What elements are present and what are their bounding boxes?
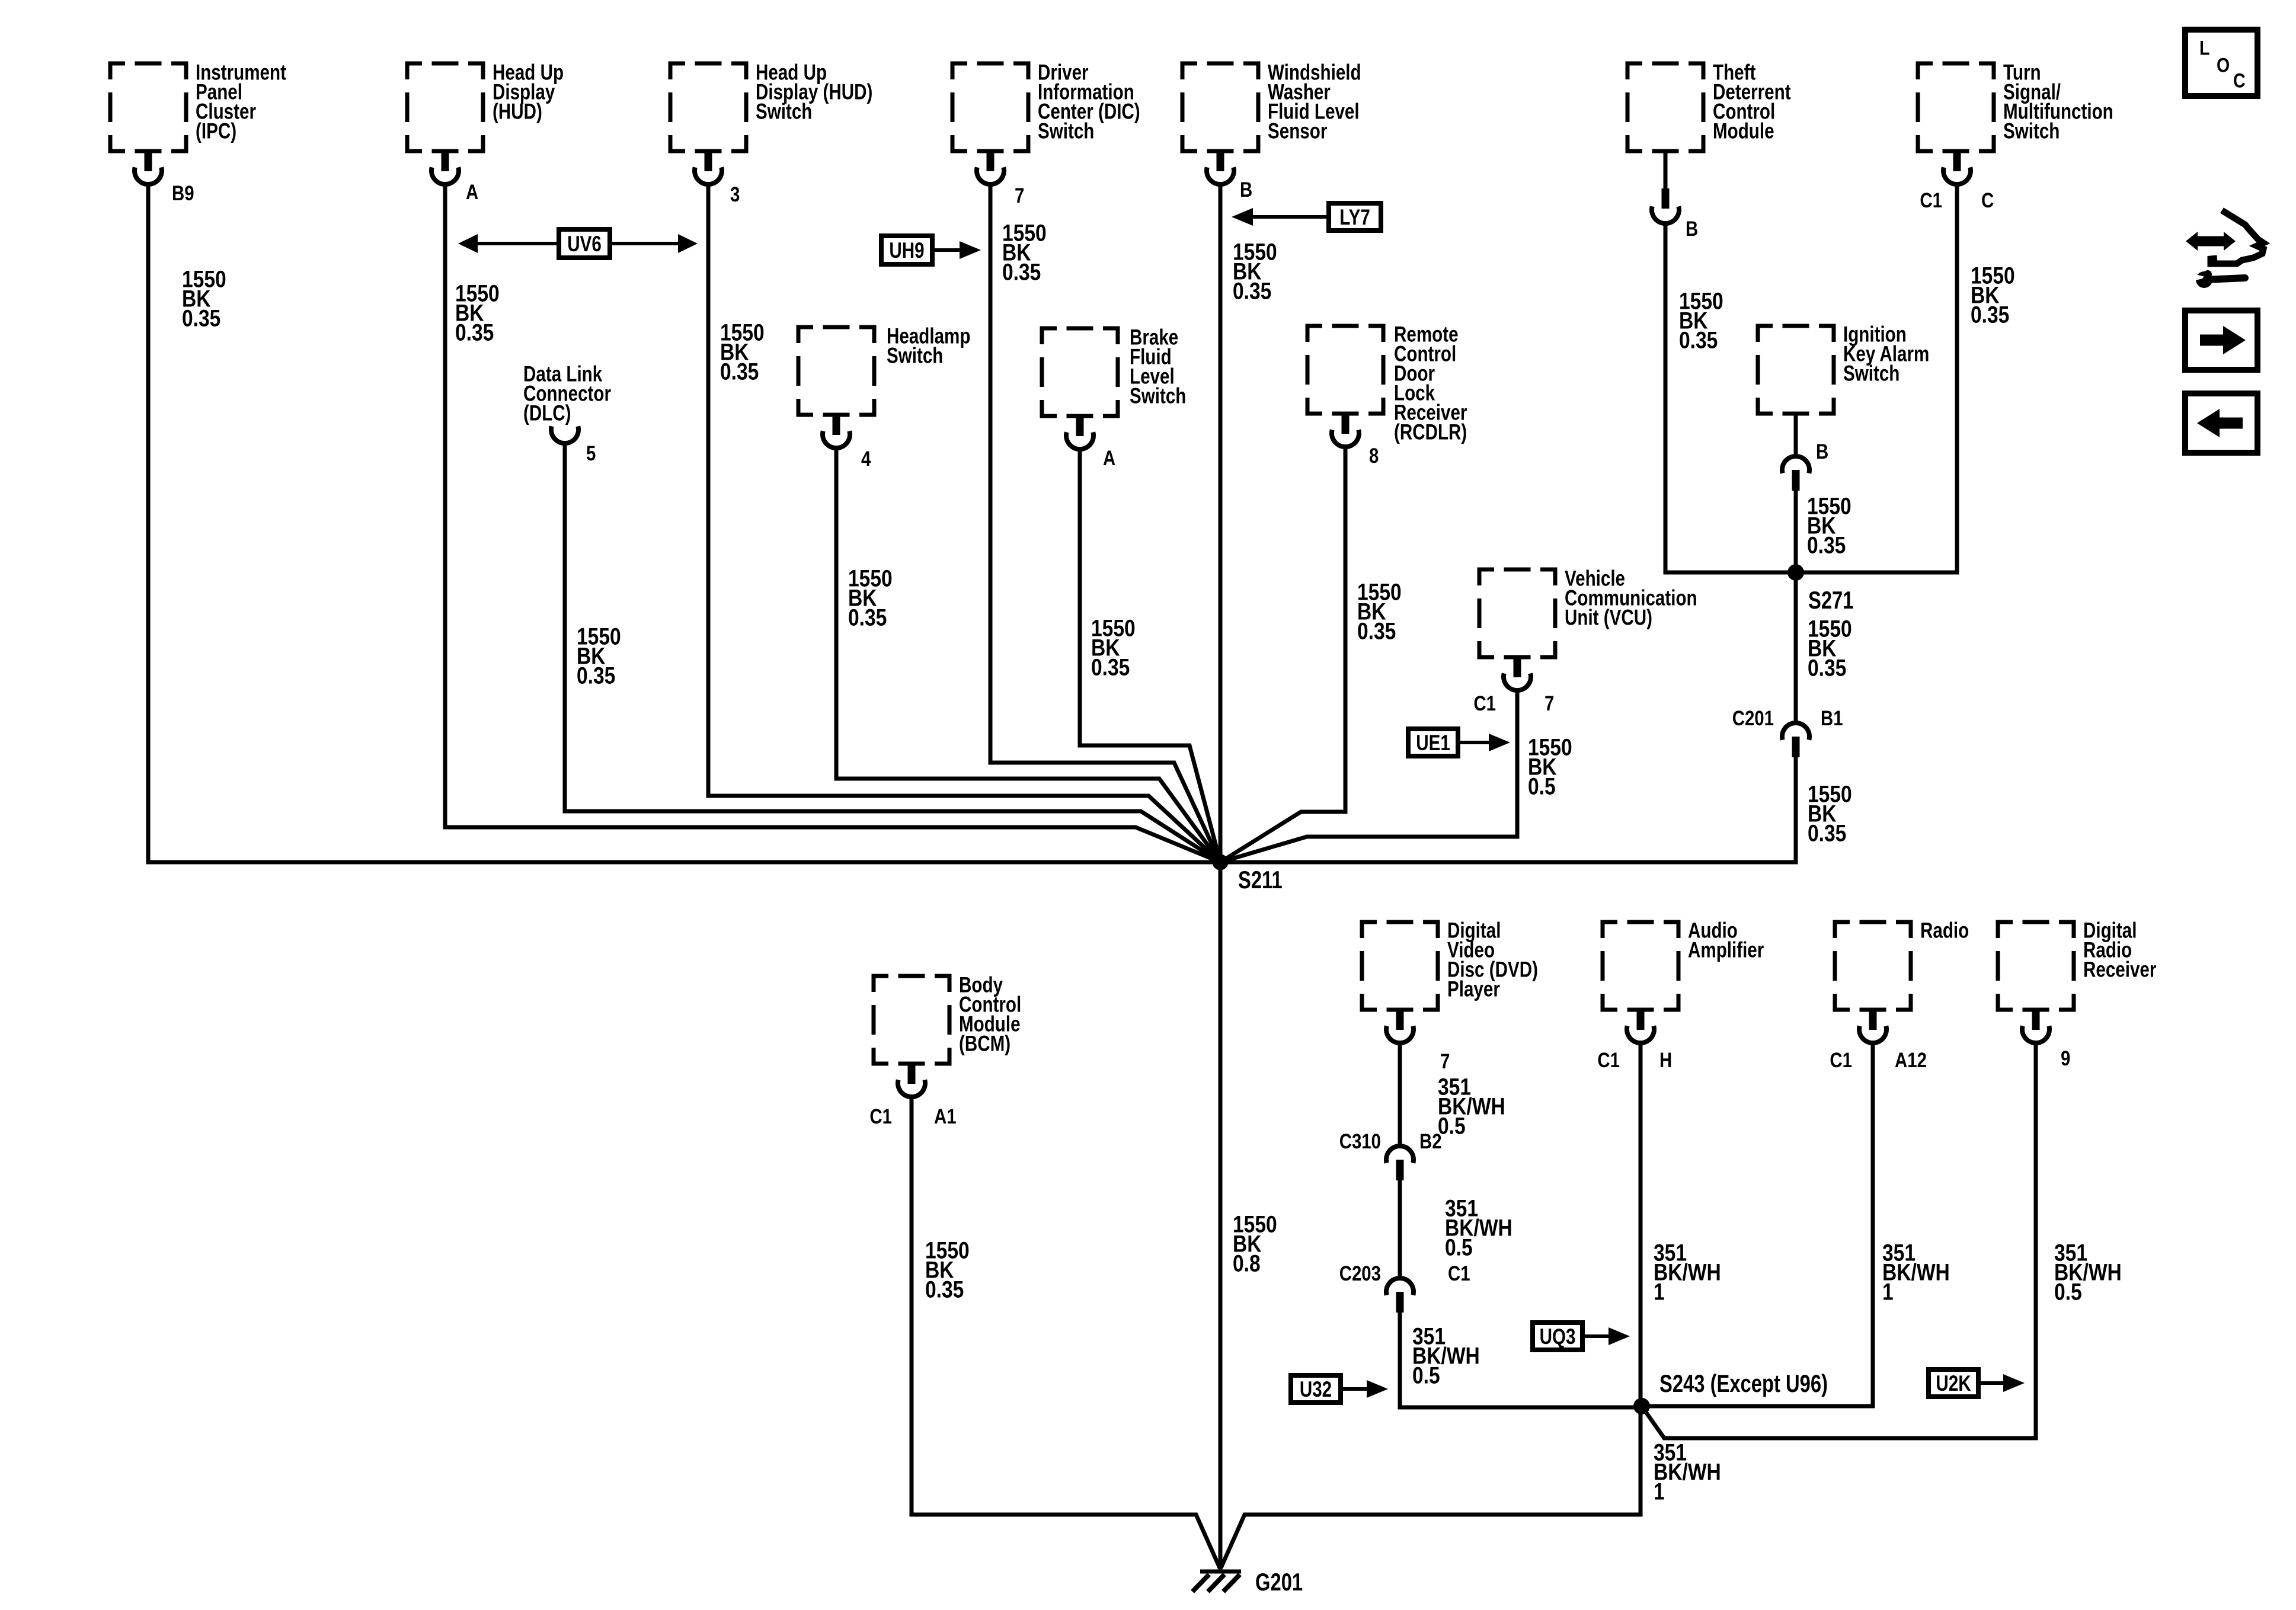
option code UV6 double-headed arrow between HUD and HUD Switch wires <box>458 229 698 258</box>
wire label 1550 BK 0.5 (VCU) <box>1528 734 1572 799</box>
wire: DIC Switch 7 to S211 (1550 BK 0.35) <box>990 184 1220 862</box>
svg-text:(HUD): (HUD) <box>493 100 542 124</box>
wire: Theft Deterrent B to S271 (1550 BK 0.35) <box>1665 221 1796 572</box>
svg-text:0.35: 0.35 <box>925 1276 964 1302</box>
svg-text:0.8: 0.8 <box>1233 1250 1261 1276</box>
svg-text:C1: C1 <box>1448 1262 1470 1285</box>
legend: back arrow box <box>2185 393 2257 453</box>
component box: Radio <box>1835 918 1969 1010</box>
connector pin 5 of DLC <box>551 426 596 465</box>
connector pin A of HUD <box>431 151 478 204</box>
wire label 1550 BK 0.35 (Windshield Washer) <box>1233 239 1277 304</box>
svg-text:B9: B9 <box>172 182 194 205</box>
svg-text:B: B <box>1816 440 1828 463</box>
wire label 1550 BK 0.35 (Ignition Key Alarm) <box>1807 493 1851 558</box>
component box: Turn Signal/Multifunction Switch <box>1918 60 2113 151</box>
svg-text:C201: C201 <box>1732 707 1774 730</box>
option code UQ3 arrow pointing to Audio Amplifier wire <box>1533 1323 1630 1350</box>
component box: Body Control Module (BCM) <box>874 973 1021 1064</box>
svg-text:0.5: 0.5 <box>1528 773 1556 799</box>
svg-text:U2K: U2K <box>1936 1372 1971 1396</box>
wire label 1550 BK 0.35 (Theft Deterrent) <box>1679 288 1723 353</box>
svg-text:C203: C203 <box>1339 1262 1381 1285</box>
svg-text:0.5: 0.5 <box>1412 1362 1440 1388</box>
wire label 1550 BK 0.35 (DLC) <box>577 623 621 689</box>
wire: C201 B1 to S211 (1550 BK 0.35) <box>1220 757 1796 862</box>
wire label 351 BK/WH 1 (Radio) <box>1882 1240 1950 1305</box>
wire: DLC 5 to S211 (1550 BK 0.35) <box>565 443 1220 862</box>
legend: forward arrow box <box>2185 311 2257 370</box>
svg-text:B: B <box>1686 217 1698 241</box>
svg-text:C1: C1 <box>869 1105 892 1128</box>
wire label 1550 BK 0.35 (S271 to C201) <box>1808 616 1852 681</box>
svg-text:LY7: LY7 <box>1339 206 1370 230</box>
component box: Ignition Key Alarm Switch <box>1758 322 1929 414</box>
wire label 351 BK/WH 1 (S243 to G201) <box>1654 1439 1721 1505</box>
wire label 1550 BK 0.35 (IPC) <box>182 266 226 331</box>
ground G201 symbol <box>1192 1568 1303 1596</box>
svg-text:0.35: 0.35 <box>1091 654 1130 680</box>
svg-text:UH9: UH9 <box>889 239 924 263</box>
svg-text:C1: C1 <box>1473 692 1496 715</box>
option code U32 arrow pointing to DVD wire <box>1291 1375 1388 1403</box>
svg-text:G201: G201 <box>1255 1568 1303 1596</box>
component box: Digital Radio Receiver <box>1998 918 2156 1010</box>
svg-text:O: O <box>2217 54 2230 76</box>
connector pin 3 of HUD Switch <box>695 151 740 206</box>
wire label 1550 BK 0.35 (Turn Signal) <box>1971 263 2015 328</box>
svg-text:S271: S271 <box>1808 586 1854 614</box>
svg-text:4: 4 <box>861 447 871 470</box>
wire: Turn Signal C to S271 (1550 BK 0.35) <box>1796 184 1957 572</box>
svg-text:Radio: Radio <box>1920 918 1969 943</box>
svg-text:1: 1 <box>1882 1279 1894 1305</box>
svg-text:L: L <box>2199 37 2209 59</box>
wire: HUD A to S211 (1550 BK 0.35) <box>445 184 1220 862</box>
svg-text:0.35: 0.35 <box>1808 820 1846 846</box>
svg-text:Sensor: Sensor <box>1268 119 1327 143</box>
connector C1 pin C of Turn Signal/Multifunction Switch <box>1920 151 1994 212</box>
svg-text:UE1: UE1 <box>1416 731 1450 756</box>
wire: Headlamp Switch 4 to S211 (1550 BK 0.35) <box>836 447 1220 862</box>
svg-text:B: B <box>1240 178 1252 201</box>
svg-text:5: 5 <box>586 442 596 465</box>
inline connector C201 pin B1 <box>1732 707 1843 757</box>
connector pin B of Theft Deterrent Control Module <box>1652 151 1698 241</box>
svg-text:0.35: 0.35 <box>182 305 220 331</box>
wire label 1550 BK 0.35 (C201 to S211) <box>1808 781 1852 846</box>
svg-text:Switch: Switch <box>1130 384 1186 408</box>
connector pin 9 of Digital Radio Receiver <box>2022 1010 2070 1070</box>
svg-text:8: 8 <box>1369 444 1379 468</box>
wire label 351 BK/WH 0.5 (C310 to C203) <box>1445 1195 1512 1260</box>
svg-text:Unit (VCU): Unit (VCU) <box>1565 606 1652 630</box>
wire label 1550 BK 0.35 (RCDLR) <box>1357 579 1402 644</box>
svg-text:A12: A12 <box>1895 1049 1927 1072</box>
wire: Audio Amplifier H through S243 to ground G201 (351 BK/WH 1) <box>1221 1042 1641 1568</box>
wire: Digital Radio Receiver 9 to S243 (351 BK/WH 0.5) <box>1642 1042 2036 1438</box>
connector C1 pin A1 of BCM <box>869 1064 956 1128</box>
svg-text:1: 1 <box>1654 1279 1665 1305</box>
legend: LOC box <box>2185 30 2257 96</box>
svg-text:7: 7 <box>1440 1050 1450 1073</box>
component box: Brake Fluid Level Switch <box>1042 325 1186 416</box>
wire label 1550 BK 0.35 (Headlamp Switch) <box>848 565 893 630</box>
wire label 351 BK/WH 1 (Audio Amplifier) <box>1654 1240 1721 1305</box>
wire label 1550 BK 0.8 (S211 to G201) <box>1233 1211 1277 1276</box>
wire: HUD Switch 3 to S211 (1550 BK 0.35) <box>708 184 1220 862</box>
svg-text:C1: C1 <box>1830 1049 1852 1072</box>
svg-text:(BCM): (BCM) <box>959 1032 1011 1056</box>
wire label 351 BK/WH 0.5 (DVD to C310) <box>1438 1074 1505 1139</box>
svg-text:S211: S211 <box>1238 866 1283 894</box>
component box: Headlamp Switch <box>798 324 970 415</box>
svg-text:Receiver: Receiver <box>2083 958 2156 982</box>
svg-text:C1: C1 <box>1920 189 1942 212</box>
wire: Windshield Washer Sensor B down to S211 (1550 BK 0.35) <box>1219 184 1223 862</box>
svg-text:A1: A1 <box>934 1105 957 1128</box>
connector pin B9 of IPC <box>135 151 194 205</box>
svg-text:(RCDLR): (RCDLR) <box>1394 420 1467 444</box>
wire: S271 down to C201 (1550 BK 0.35) <box>1794 572 1798 724</box>
wire: C310 B2 to C203 (351 BK/WH 0.5) <box>1398 1180 1402 1279</box>
splice S243 (Except U96) <box>1633 1369 1828 1414</box>
wire label 1550 BK 0.35 (HUD Switch) <box>720 319 765 385</box>
component box: Instrument Panel Cluster (IPC) <box>110 60 286 151</box>
wire label 351 BK/WH 0.5 (Digital Radio Receiver) <box>2054 1240 2122 1305</box>
svg-text:0.35: 0.35 <box>1679 327 1718 353</box>
svg-text:C310: C310 <box>1339 1130 1381 1153</box>
svg-text:0.35: 0.35 <box>1357 618 1396 644</box>
inline connector C310 pin B2 <box>1339 1130 1442 1180</box>
wire label 1550 BK 0.35 (BCM) <box>925 1237 970 1302</box>
svg-text:Switch: Switch <box>756 100 812 124</box>
svg-text:0.35: 0.35 <box>455 319 494 345</box>
connector pin 7 of DIC Switch <box>977 151 1024 207</box>
component: Data Link Connector (DLC) label <box>523 362 611 425</box>
svg-text:0.5: 0.5 <box>1445 1234 1473 1260</box>
component box: Head Up Display (HUD) <box>407 60 564 151</box>
connector C1 pin A12 of Radio <box>1830 1010 1927 1072</box>
component box: Windshield Washer Fluid Level Sensor <box>1182 60 1361 151</box>
wire label 351 BK/WH 0.5 (C203 to S243) <box>1412 1323 1480 1388</box>
wire: S211 down to ground G201 (1550 BK 0.8) <box>1219 862 1223 1570</box>
svg-text:3: 3 <box>730 183 740 206</box>
svg-text:Amplifier: Amplifier <box>1688 938 1764 962</box>
svg-text:Switch: Switch <box>1843 361 1900 386</box>
connector pin 4 of Headlamp Switch <box>823 415 871 470</box>
wire: Ignition Key Alarm Switch B to S271 (1550 BK 0.35) <box>1794 491 1798 572</box>
wire: BCM A1 to ground G201 (1550 BK 0.35) <box>912 1096 1220 1568</box>
option code U2K arrow pointing to Digital Radio Receiver wire <box>1929 1369 2025 1397</box>
wire label 1550 BK 0.35 (DIC) <box>1002 220 1047 285</box>
svg-text:H: H <box>1659 1049 1672 1072</box>
connector pin A of Brake Fluid Level Switch <box>1066 416 1115 470</box>
connector C1 pin 7 of VCU <box>1473 657 1554 715</box>
component box: Theft Deterrent Control Module <box>1627 60 1791 151</box>
wire: C203 C1 to S243 (351 BK/WH 0.5) <box>1400 1313 1642 1407</box>
connector pin B of Ignition Key Alarm Switch <box>1782 414 1828 491</box>
svg-text:0.35: 0.35 <box>848 604 887 630</box>
svg-text:U32: U32 <box>1300 1378 1332 1402</box>
svg-text:A: A <box>466 181 478 204</box>
svg-text:1: 1 <box>1654 1478 1665 1505</box>
wire: Brake Fluid Level Switch A to S211 (1550 BK 0.35) <box>1080 449 1220 862</box>
wire: Radio A12 to S243 (351 BK/WH 1) <box>1642 1042 1873 1406</box>
svg-text:7: 7 <box>1544 692 1554 715</box>
svg-text:C: C <box>2233 69 2246 92</box>
svg-text:0.35: 0.35 <box>1233 278 1271 304</box>
component box: Head Up Display (HUD) Switch <box>670 60 872 151</box>
option code UH9 arrow pointing to DIC wire <box>881 236 981 264</box>
svg-text:0.35: 0.35 <box>720 359 759 385</box>
svg-text:B2: B2 <box>1419 1130 1442 1153</box>
component box: Remote Control Door Lock Receiver (RCDLR) <box>1307 322 1467 444</box>
wire: VCU 7 to S211 (1550 BK 0.5) <box>1220 690 1517 862</box>
svg-text:9: 9 <box>2061 1047 2070 1070</box>
wire label 1550 BK 0.35 (HUD) <box>455 280 500 345</box>
connector C1 pin H of Audio Amplifier <box>1597 1010 1672 1072</box>
svg-text:Module: Module <box>1713 119 1774 143</box>
component box: Digital Video Disc (DVD) Player <box>1362 918 1538 1010</box>
svg-text:UQ3: UQ3 <box>1540 1325 1576 1349</box>
svg-text:0.35: 0.35 <box>1807 532 1846 558</box>
svg-text:7: 7 <box>1015 184 1024 207</box>
svg-text:0.35: 0.35 <box>1808 655 1846 681</box>
svg-text:Switch: Switch <box>1038 119 1094 143</box>
svg-text:B1: B1 <box>1821 707 1843 730</box>
wire label 1550 BK 0.35 (Brake Fluid Level Switch) <box>1091 615 1136 680</box>
connector pin B of Windshield Washer Fluid Level Sensor <box>1207 151 1252 201</box>
svg-text:Switch: Switch <box>2003 119 2060 143</box>
svg-text:0.35: 0.35 <box>577 662 615 689</box>
splice S211 <box>1213 854 1283 894</box>
svg-text:Switch: Switch <box>887 344 943 368</box>
svg-text:S243 (Except U96): S243 (Except U96) <box>1659 1369 1828 1397</box>
svg-text:0.35: 0.35 <box>1971 302 2009 328</box>
legend: diagnostic icon (arrow, outline, wrench) <box>2186 210 2263 288</box>
wire: IPC B9 to S211 (1550 BK 0.35) <box>148 184 1220 862</box>
svg-text:C1: C1 <box>1597 1049 1620 1072</box>
svg-text:Player: Player <box>1447 977 1500 1001</box>
svg-text:(DLC): (DLC) <box>523 401 571 425</box>
component box: Driver Information Center (DIC) Switch <box>952 60 1140 151</box>
wire: DVD Player 7 to C310 (351 BK/WH 0.5) <box>1398 1042 1402 1147</box>
option code LY7 arrow pointing to windshield washer wire <box>1232 203 1381 231</box>
svg-text:(IPC): (IPC) <box>196 119 236 143</box>
inline connector C203 pin C1 <box>1339 1262 1470 1313</box>
svg-text:UV6: UV6 <box>567 232 602 257</box>
option code UE1 arrow pointing to VCU wire <box>1408 729 1510 756</box>
connector pin 7 of DVD Player <box>1386 1010 1450 1073</box>
svg-text:C: C <box>1981 189 1994 212</box>
svg-text:A: A <box>1103 447 1115 470</box>
component box: Audio Amplifier <box>1603 918 1764 1010</box>
svg-text:0.5: 0.5 <box>2054 1279 2082 1305</box>
wire: RCDLR 8 to S211 (1550 BK 0.35) <box>1220 446 1345 862</box>
splice S271 <box>1787 564 1854 614</box>
svg-text:0.35: 0.35 <box>1002 259 1041 285</box>
component box: Vehicle Communication Unit (VCU) <box>1479 566 1697 657</box>
connector pin 8 of RCDLR <box>1332 414 1379 468</box>
svg-text:0.5: 0.5 <box>1438 1113 1466 1139</box>
